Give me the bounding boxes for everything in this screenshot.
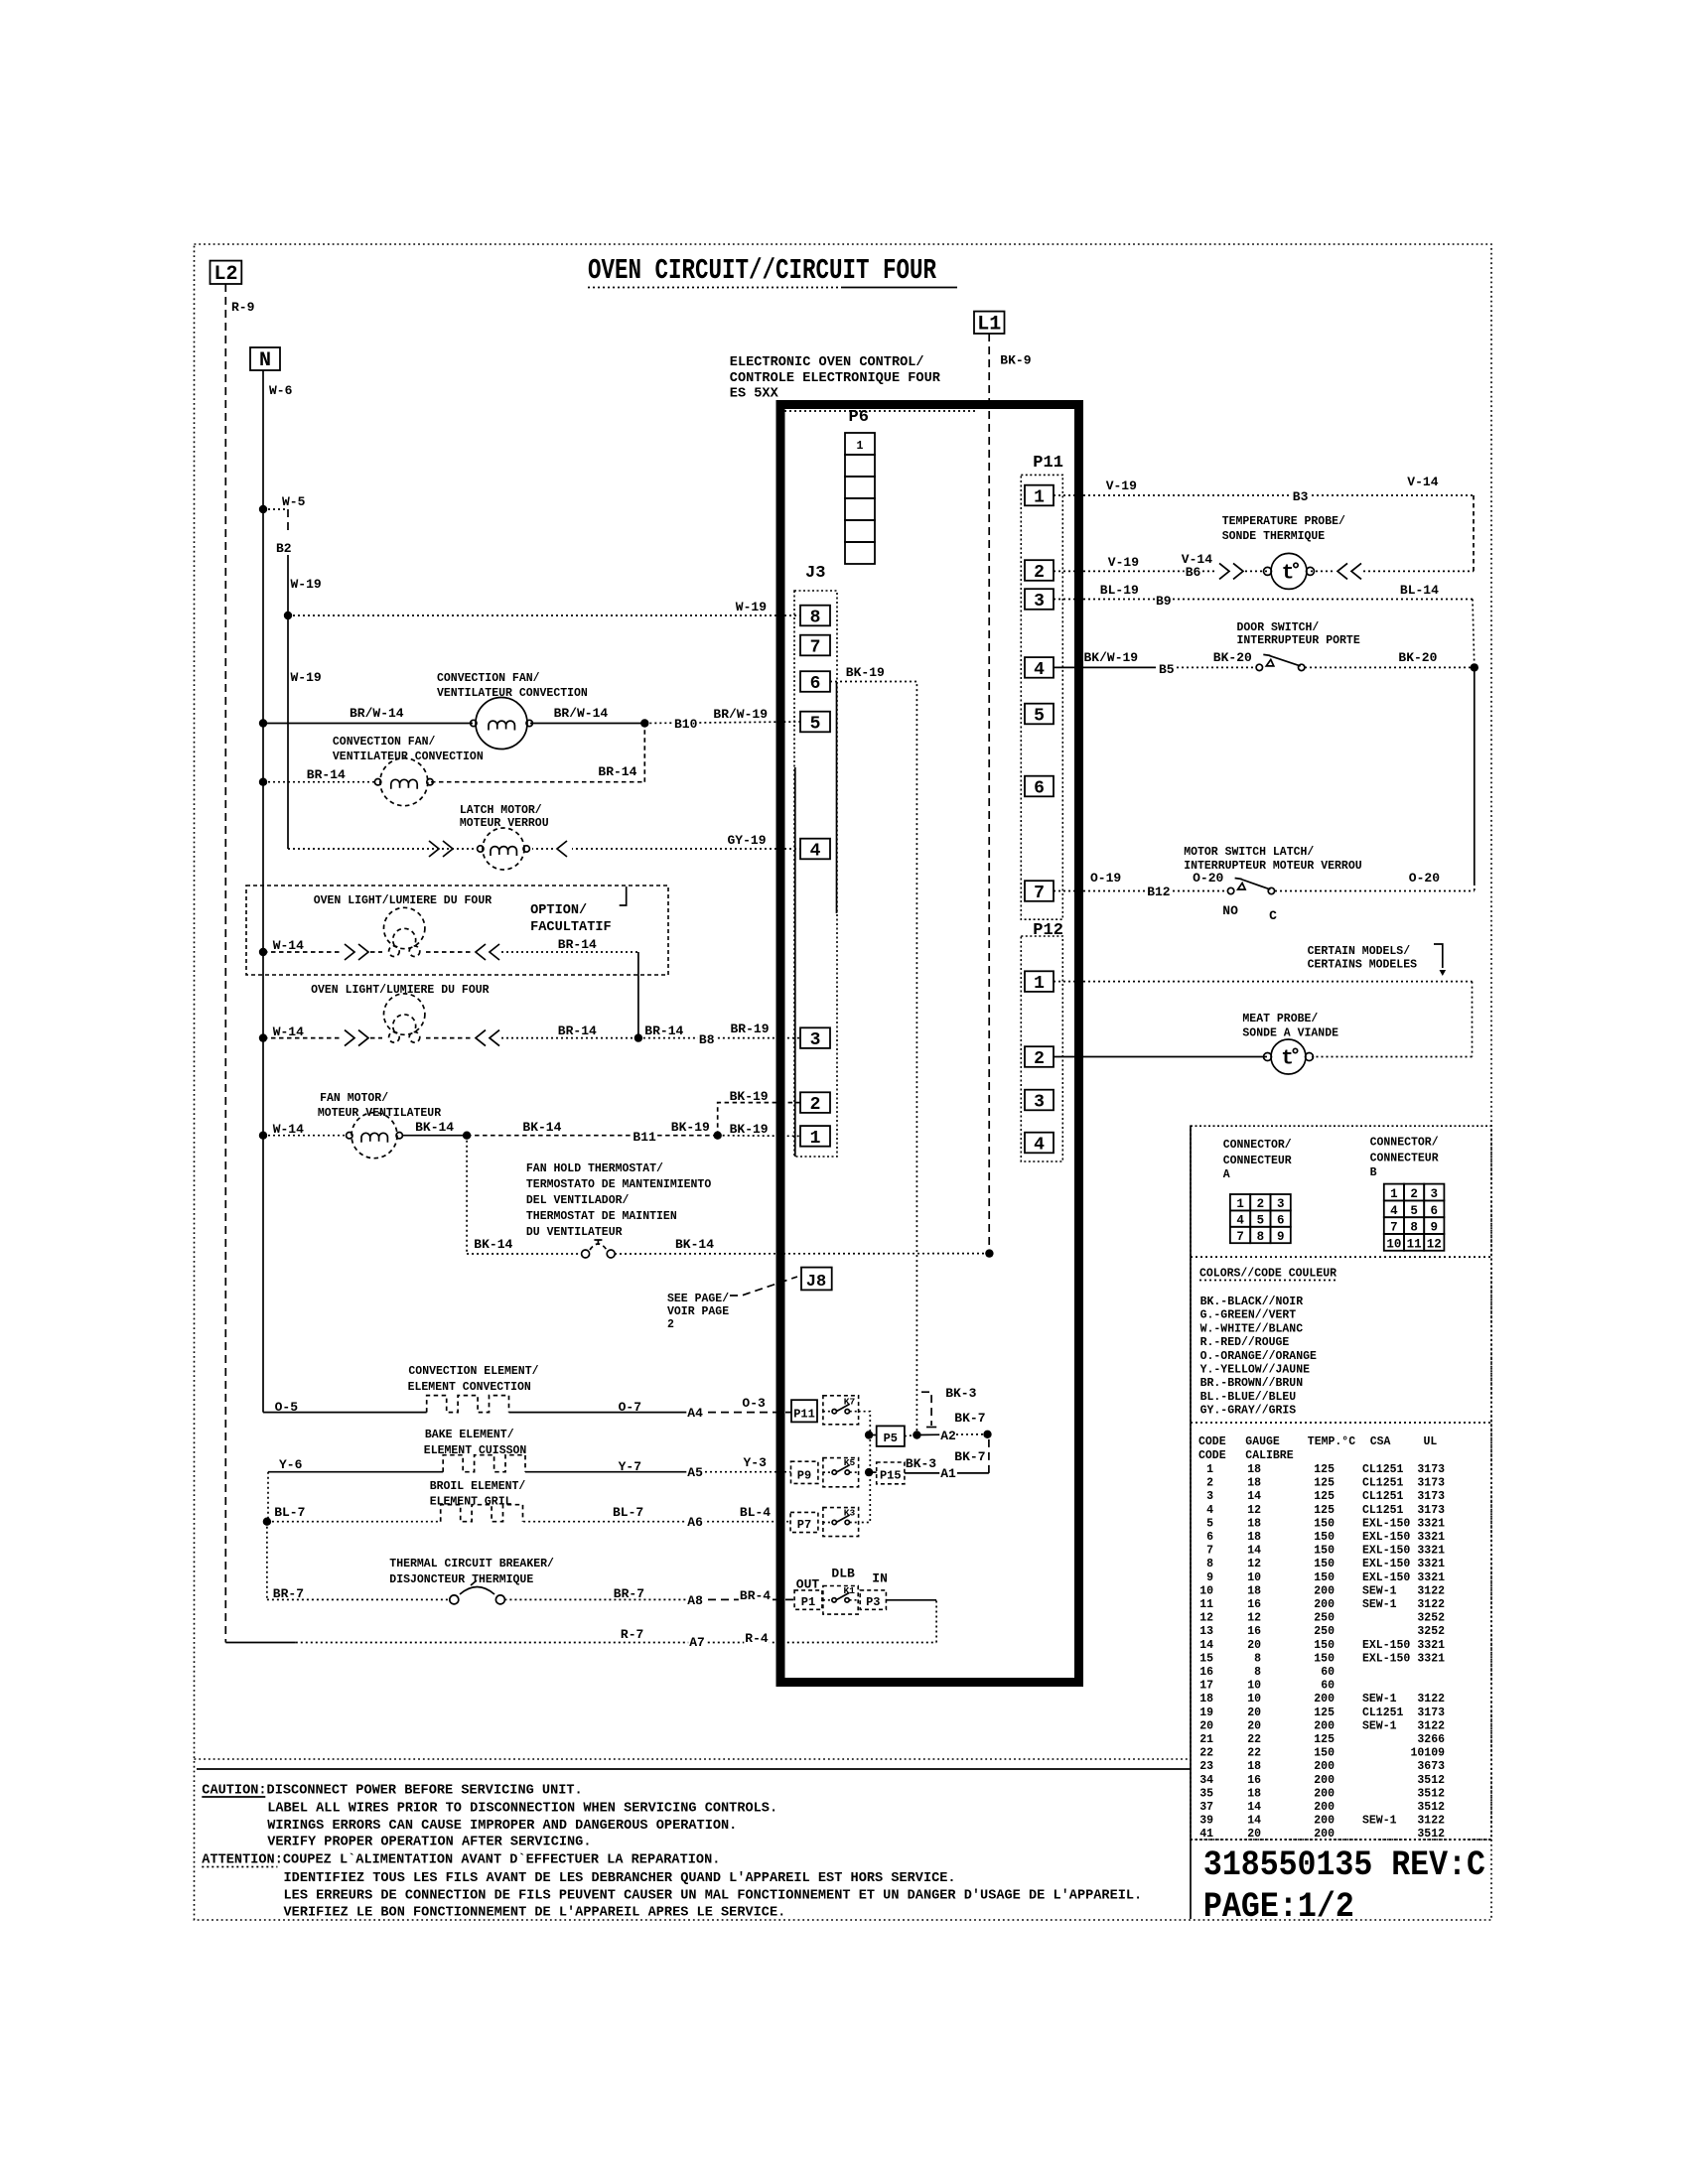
svg-text:CODE: CODE [1198,1435,1226,1448]
wire GY-19 row [288,848,800,850]
svg-text:8: 8 [810,608,821,627]
svg-text:R-7: R-7 [621,1627,643,1642]
svg-text:1: 1 [857,440,864,453]
wire BR-14 up to B10 [643,724,645,782]
svg-text:318550135 REV:C: 318550135 REV:C [1203,1845,1485,1885]
svg-text:OPTION/: OPTION/ [530,903,587,918]
relay K7 [823,1396,859,1425]
svg-text:SEE PAGE/: SEE PAGE/ [667,1293,729,1305]
svg-text:BK-20: BK-20 [1213,650,1252,665]
svg-text:P1: P1 [801,1595,815,1609]
svg-text:1: 1 [810,1129,821,1149]
wire BR/W-14 row [263,723,473,725]
svg-text:16: 16 [1247,1774,1261,1787]
wire P3 to corner [886,1599,936,1601]
svg-text:CONNECTEUR: CONNECTEUR [1370,1153,1439,1165]
svg-text:BR-19: BR-19 [731,1022,770,1036]
divider table/rev [1191,1839,1491,1841]
svg-text:125: 125 [1314,1490,1335,1503]
svg-text:8: 8 [1254,1652,1261,1665]
wire BL-19 B9 row [1054,599,1473,601]
svg-text:R-9: R-9 [231,300,255,315]
svg-text:4: 4 [1034,1135,1045,1155]
thermal circuit breaker [450,1595,459,1604]
node P15 tap [865,1468,873,1476]
svg-text:VENTILATEUR CONVECTION: VENTILATEUR CONVECTION [333,751,484,763]
convection fan motor 1 [476,698,527,750]
svg-text:W-14: W-14 [273,1122,304,1137]
J3 pin 6 [800,671,830,692]
svg-text:N: N [259,349,271,372]
P11 pin 3 [1025,589,1054,610]
svg-text:BL-7: BL-7 [613,1505,643,1520]
svg-text:BL-7: BL-7 [274,1505,305,1520]
svg-text:B9: B9 [1156,594,1172,609]
svg-text:P7: P7 [797,1518,811,1532]
svg-text:150: 150 [1314,1545,1335,1558]
svg-text:BK-14: BK-14 [474,1237,512,1252]
svg-text:VENTILATEUR CONVECTION: VENTILATEUR CONVECTION [437,687,588,700]
wire V-19 B6 row [1054,570,1217,572]
wire K7 to P5/K3 chain [859,1412,871,1523]
wire BK-19 to J3 pin 2 [718,1103,800,1136]
wire oven light 2 row [263,1037,343,1039]
J3 pin 5 [800,712,830,733]
svg-text:4: 4 [810,841,821,861]
chevrons latch left [429,841,439,857]
wire O-3 into EOC [695,1412,791,1414]
page border [195,244,1492,1920]
svg-text:CONNECTOR/: CONNECTOR/ [1370,1137,1439,1150]
svg-text:60: 60 [1321,1666,1335,1679]
svg-text:B6: B6 [1186,565,1201,580]
svg-text:3173: 3173 [1417,1490,1445,1503]
svg-text:LATCH MOTOR/: LATCH MOTOR/ [460,804,542,817]
svg-text:P6: P6 [849,408,869,427]
svg-text:150: 150 [1314,1639,1335,1652]
svg-text:CL1251: CL1251 [1362,1463,1404,1476]
svg-text:12: 12 [1199,1612,1213,1625]
svg-text:FACULTATIF: FACULTATIF [530,920,612,935]
wire BR-7 row [267,1598,450,1600]
svg-text:150: 150 [1314,1558,1335,1570]
svg-text:A7: A7 [689,1635,705,1650]
svg-text:200: 200 [1314,1693,1335,1706]
node W-14 junction 2 [259,1033,267,1041]
svg-text:7: 7 [1034,884,1045,903]
svg-text:1: 1 [1236,1197,1244,1211]
wire BK-14 thermostat row [467,1253,582,1255]
svg-text:37: 37 [1199,1801,1213,1814]
svg-text:3512: 3512 [1417,1774,1445,1787]
svg-text:P11: P11 [1033,454,1063,473]
relay P7 input box [790,1512,818,1532]
svg-text:200: 200 [1314,1598,1335,1611]
svg-text:9: 9 [1206,1571,1213,1584]
wire BL-7 row [267,1521,441,1523]
svg-text:5: 5 [1034,706,1045,726]
relay P15 box [877,1462,905,1484]
wire B8 BR-19 to J3 pin 3 [638,1037,800,1039]
svg-text:B5: B5 [1159,662,1175,677]
svg-text:3321: 3321 [1417,1517,1445,1530]
J3 pin 2 [800,1092,830,1113]
svg-text:2: 2 [1034,1049,1045,1069]
svg-text:DOOR SWITCH/: DOOR SWITCH/ [1237,621,1320,634]
svg-text:2: 2 [1257,1197,1265,1211]
svg-text:CL1251: CL1251 [1362,1504,1404,1517]
svg-text:P11: P11 [793,1408,815,1422]
svg-text:60: 60 [1321,1680,1335,1693]
option dashed box [246,886,668,975]
svg-text:15: 15 [1199,1652,1213,1665]
svg-text:MEAT PROBE/: MEAT PROBE/ [1242,1013,1318,1025]
svg-text:1: 1 [1206,1463,1213,1476]
svg-text:O-5: O-5 [275,1400,299,1415]
svg-text:125: 125 [1314,1733,1335,1746]
svg-text:18: 18 [1247,1787,1261,1800]
svg-text:BK.-BLACK//NOIR: BK.-BLACK//NOIR [1200,1296,1304,1308]
svg-text:W-6: W-6 [269,383,293,398]
svg-text:10: 10 [1247,1680,1261,1693]
wire BR-14 right segment [431,781,644,783]
svg-text:O-19: O-19 [1090,871,1121,886]
svg-text:DLB: DLB [831,1567,855,1581]
wire BK/W-19 B5 [1054,666,1156,668]
svg-text:K1: K1 [844,1585,856,1596]
wire BK-14 down [466,1136,468,1254]
svg-text:BK-19: BK-19 [671,1120,710,1135]
svg-text:BR.-BROWN//BRUN: BR.-BROWN//BRUN [1200,1377,1304,1390]
svg-text:W-5: W-5 [282,494,306,509]
svg-text:4: 4 [1236,1213,1244,1227]
svg-text:18: 18 [1247,1531,1261,1544]
svg-text:3122: 3122 [1417,1719,1445,1732]
svg-text:O-3: O-3 [742,1396,766,1411]
svg-text:7: 7 [810,637,821,657]
svg-text:BK-3: BK-3 [906,1456,936,1471]
node B10 junction [640,719,648,727]
svg-text:6: 6 [1277,1213,1285,1227]
svg-text:VERIFY PROPER OPERATION AFTER: VERIFY PROPER OPERATION AFTER SERVICING. [267,1836,591,1850]
svg-text:150: 150 [1314,1652,1335,1665]
svg-text:B12: B12 [1147,885,1171,899]
svg-text:125: 125 [1314,1504,1335,1517]
svg-text:UL: UL [1424,1435,1438,1448]
wire BL-7 right [523,1521,790,1523]
svg-text:3: 3 [810,1030,821,1050]
P12 pin 3 [1025,1090,1054,1111]
J3 pin 4 [800,839,830,860]
svg-text:3252: 3252 [1417,1625,1445,1638]
svg-text:B2: B2 [276,541,292,556]
svg-text:150: 150 [1314,1747,1335,1760]
svg-text:K7: K7 [844,1397,856,1408]
node L1 [974,312,1005,334]
svg-text:39: 39 [1199,1815,1213,1828]
dotted line inside EOC top [784,410,978,412]
svg-text:VERIFIEZ LE BON FONCTIONNEMENT: VERIFIEZ LE BON FONCTIONNEMENT DE L'APPA… [284,1906,786,1921]
svg-text:8: 8 [1410,1221,1418,1235]
svg-text:THERMOSTAT DE MAINTIEN: THERMOSTAT DE MAINTIEN [526,1210,677,1223]
svg-text:23: 23 [1199,1760,1213,1773]
wire BR-7 right to A8 [504,1598,695,1600]
relay K1 DLB [823,1586,858,1615]
P11 pin 4 [1025,657,1054,678]
svg-text:EXL-150: EXL-150 [1362,1571,1410,1584]
svg-text:3173: 3173 [1417,1504,1445,1517]
wire W-5 to B2 [263,508,288,510]
svg-text:CSA: CSA [1370,1435,1391,1448]
node BR-14 junction [259,778,267,786]
svg-text:6: 6 [1034,778,1045,798]
wire BK-14 to B11 [467,1135,718,1137]
fan hold thermostat switch [582,1250,590,1258]
svg-text:Y-6: Y-6 [279,1457,303,1472]
svg-text:P3: P3 [866,1595,880,1609]
svg-text:CONVECTION FAN/: CONVECTION FAN/ [437,672,540,685]
svg-text:20: 20 [1247,1639,1261,1652]
svg-text:12: 12 [1247,1612,1261,1625]
svg-text:17: 17 [1199,1680,1213,1693]
svg-text:ES 5XX: ES 5XX [730,387,779,402]
svg-text:LABEL ALL WIRES PRIOR TO DISCO: LABEL ALL WIRES PRIOR TO DISCONNECTION W… [267,1802,777,1817]
node W-14 junction 1 [259,948,267,956]
svg-text:20: 20 [1247,1706,1261,1719]
svg-text:125: 125 [1314,1477,1335,1490]
relay K3 [823,1508,859,1537]
svg-text:125: 125 [1314,1706,1335,1719]
svg-text:BL-19: BL-19 [1100,583,1139,598]
wire P12 pin1 row [1054,981,1473,983]
svg-text:11: 11 [1199,1598,1213,1611]
svg-text:B10: B10 [674,717,698,732]
svg-text:3: 3 [1034,592,1045,612]
svg-text:125: 125 [1314,1463,1335,1476]
svg-text:2: 2 [1034,563,1045,583]
svg-text:GY-19: GY-19 [728,833,767,848]
svg-text:12: 12 [1247,1558,1261,1570]
P11 pin 2 [1025,560,1054,581]
wire down to B8 [637,952,639,1038]
svg-text:16: 16 [1247,1598,1261,1611]
svg-text:K5: K5 [844,1457,856,1468]
svg-text:TEMP.°C: TEMP.°C [1308,1435,1355,1448]
svg-text:3252: 3252 [1417,1612,1445,1625]
caution divider [195,1758,1192,1760]
svg-text:4: 4 [1390,1204,1398,1218]
svg-text:BK-7: BK-7 [954,1411,985,1426]
svg-text:3: 3 [1206,1490,1213,1503]
svg-text:250: 250 [1314,1625,1335,1638]
temperature probe [1271,553,1307,589]
svg-text:200: 200 [1314,1801,1335,1814]
svg-text:O.-ORANGE//ORANGE: O.-ORANGE//ORANGE [1200,1350,1317,1363]
svg-text:2: 2 [667,1318,674,1331]
relay P1 box [794,1590,822,1609]
svg-text:18: 18 [1247,1463,1261,1476]
svg-text:CONNECTOR/: CONNECTOR/ [1223,1139,1292,1152]
electronic oven control ES 5XX box [780,405,1079,1683]
svg-text:BR-14: BR-14 [644,1024,683,1038]
svg-text:ELEMENT CONVECTION: ELEMENT CONVECTION [408,1381,531,1394]
svg-text:5: 5 [1410,1204,1418,1218]
svg-text:B8: B8 [699,1032,715,1047]
node B11 junction [714,1132,722,1140]
svg-text:7: 7 [1206,1545,1213,1558]
svg-text:20: 20 [1199,1719,1213,1732]
P12 pin 1 [1025,971,1054,992]
wire to fan motor [263,1135,345,1137]
svg-text:2: 2 [1410,1187,1418,1201]
svg-text:V-14: V-14 [1407,475,1438,489]
svg-text:BR-4: BR-4 [740,1588,771,1603]
svg-text:3321: 3321 [1417,1652,1445,1665]
svg-text:O-20: O-20 [1409,871,1440,886]
svg-text:t: t [1281,1048,1294,1071]
wire up to P3 [935,1600,937,1643]
J3 pin 7 [800,635,830,656]
wire Y-3 into EOC [695,1471,791,1473]
svg-text:DISJONCTEUR THERMIQUE: DISJONCTEUR THERMIQUE [389,1573,533,1586]
svg-text:FAN MOTOR/: FAN MOTOR/ [320,1092,388,1105]
svg-text:22: 22 [1247,1747,1261,1760]
latch motor [475,828,532,870]
svg-text:R.-RED//ROUGE: R.-RED//ROUGE [1200,1336,1290,1349]
svg-text:CONNECTEUR: CONNECTEUR [1223,1155,1292,1167]
fan motor [352,1113,397,1159]
svg-text:16: 16 [1199,1666,1213,1679]
svg-text:V-19: V-19 [1108,555,1139,570]
P11 pin 5 [1025,704,1054,725]
svg-text:TERMOSTATO DE MANTENIMIENTO: TERMOSTATO DE MANTENIMIENTO [526,1178,711,1191]
svg-text:GAUGE: GAUGE [1245,1435,1280,1448]
divider colors/table [1191,1422,1491,1424]
svg-text:WIRINGS ERRORS CAN CAUSE IMPRO: WIRINGS ERRORS CAN CAUSE IMPROPER AND DA… [267,1819,737,1834]
svg-text:NO: NO [1222,903,1238,918]
node P5 tap [865,1431,873,1438]
svg-text:CODE: CODE [1198,1449,1226,1462]
svg-text:10: 10 [1386,1237,1401,1251]
svg-text:BR-14: BR-14 [558,1024,597,1038]
svg-text:Y-3: Y-3 [744,1455,768,1470]
svg-text:3: 3 [1277,1197,1285,1211]
svg-text:9: 9 [1431,1221,1439,1235]
svg-text:t: t [1282,562,1295,585]
info panel [1191,1126,1491,1840]
svg-text:V-14: V-14 [1182,552,1212,567]
svg-text:BR-14: BR-14 [598,764,636,779]
node W-5 junction [259,505,267,513]
svg-text:P15: P15 [880,1469,902,1483]
svg-text:CONVECTION FAN/: CONVECTION FAN/ [333,736,436,749]
svg-text:EXL-150: EXL-150 [1362,1652,1410,1665]
svg-text:3512: 3512 [1417,1801,1445,1814]
svg-text:OVEN LIGHT/LUMIERE DU FOUR: OVEN LIGHT/LUMIERE DU FOUR [314,894,492,907]
J3 pin 3 [800,1027,830,1048]
node BR/W-14 junction [259,719,267,727]
svg-text:BR-14: BR-14 [558,937,597,952]
svg-text:IDENTIFIEZ TOUS LES FILS AVANT: IDENTIFIEZ TOUS LES FILS AVANT DE LES DE… [284,1871,956,1886]
svg-text:14: 14 [1247,1815,1261,1828]
node BK-14 junction [463,1132,471,1140]
svg-text:O-7: O-7 [619,1400,641,1415]
svg-text:3512: 3512 [1417,1787,1445,1800]
svg-text:GY.-GRAY//GRIS: GY.-GRAY//GRIS [1200,1405,1297,1418]
relay K5 [823,1458,859,1487]
node BK-19/P5 junction [913,1431,920,1438]
certain models bracket arrow [1434,944,1443,968]
J3 pin 1 [800,1126,830,1147]
wire W-19 to J3 pin 8 [288,614,800,616]
svg-text:150: 150 [1314,1571,1335,1584]
svg-text:SONDE A VIANDE: SONDE A VIANDE [1242,1027,1338,1040]
svg-text:16: 16 [1247,1625,1261,1638]
svg-text:BK-19: BK-19 [730,1122,769,1137]
svg-text:CERTAINS MODELES: CERTAINS MODELES [1308,959,1418,972]
wire Y-6 row [268,1471,443,1473]
wire oven light 1 row [263,951,343,953]
wire BK-14 to L1 wire [615,1253,989,1255]
svg-text:OVEN CIRCUIT//CIRCUIT FOUR: OVEN CIRCUIT//CIRCUIT FOUR [588,254,936,287]
svg-text:W-14: W-14 [273,938,304,953]
svg-text:200: 200 [1314,1760,1335,1773]
svg-text:FAN HOLD THERMOSTAT/: FAN HOLD THERMOSTAT/ [526,1162,663,1175]
wire P15 BK-3 A1 [905,1472,989,1474]
svg-text:P5: P5 [884,1432,898,1445]
svg-text:A4: A4 [687,1406,703,1421]
P11 pin 7 [1025,881,1054,901]
svg-text:14: 14 [1247,1801,1261,1814]
svg-text:150: 150 [1314,1531,1335,1544]
see page leader [730,1277,797,1296]
svg-text:18: 18 [1247,1760,1261,1773]
relay P11 input box [791,1400,817,1422]
broil element [441,1505,523,1522]
svg-text:19: 19 [1199,1706,1213,1719]
wire P12 pin2 to meat probe [1054,1056,1267,1058]
svg-text:200: 200 [1314,1719,1335,1732]
svg-text:BAKE ELEMENT/: BAKE ELEMENT/ [425,1429,514,1441]
relay P3 box [860,1590,886,1609]
divider connectors/colors [1191,1256,1491,1258]
svg-text:21: 21 [1199,1733,1213,1746]
svg-text:CERTAIN MODELS/: CERTAIN MODELS/ [1308,945,1411,958]
wire BR-14 oven light 2 [501,1037,638,1039]
svg-text:BR-7: BR-7 [614,1586,644,1601]
svg-text:Y.-YELLOW//JAUNE: Y.-YELLOW//JAUNE [1200,1364,1311,1377]
svg-text:BK-7: BK-7 [954,1449,985,1464]
svg-text:3321: 3321 [1417,1558,1445,1570]
P11 pin 1 [1025,485,1054,506]
svg-text:22: 22 [1247,1733,1261,1746]
svg-text:9: 9 [1277,1230,1285,1244]
svg-text:2: 2 [1206,1477,1213,1490]
caution box [197,1768,1191,1770]
svg-text:SEW-1: SEW-1 [1362,1598,1397,1611]
svg-text:BK-19: BK-19 [846,665,885,680]
svg-text:BK-14: BK-14 [522,1120,561,1135]
svg-text:PAGE:1/2: PAGE:1/2 [1203,1887,1354,1927]
svg-text:TEMPERATURE PROBE/: TEMPERATURE PROBE/ [1222,515,1345,528]
svg-text:J8: J8 [806,1273,826,1292]
svg-text:10109: 10109 [1410,1747,1445,1760]
svg-text:BR/W-14: BR/W-14 [350,706,404,721]
convection element [427,1396,509,1413]
svg-text:L1: L1 [977,314,1001,337]
svg-text:SEW-1: SEW-1 [1362,1584,1397,1597]
wire meat probe loop [1472,982,1474,1057]
